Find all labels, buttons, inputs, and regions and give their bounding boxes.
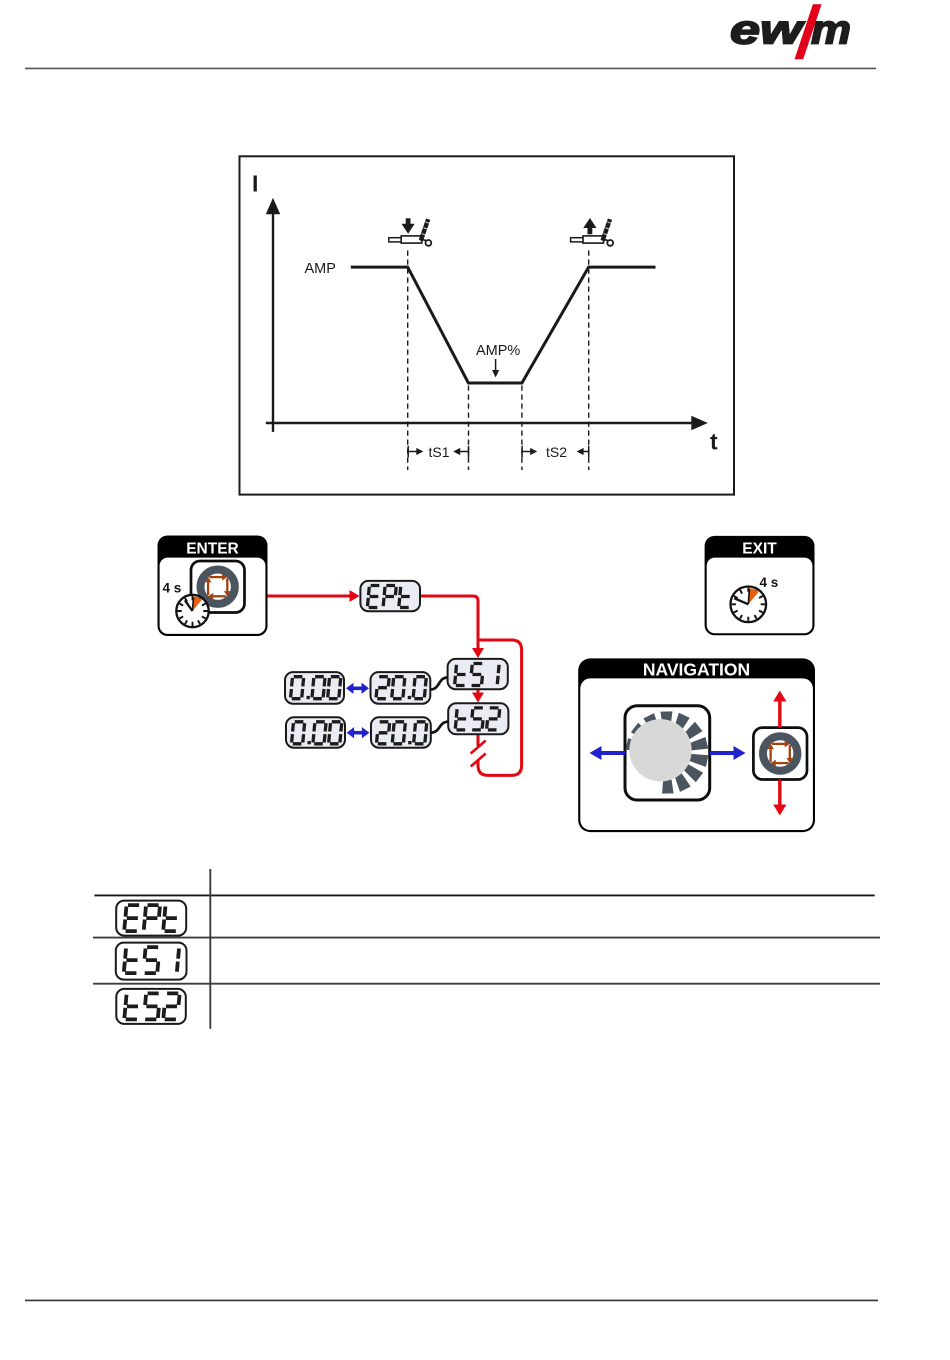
red arrow up xyxy=(773,691,786,728)
table EPt display xyxy=(116,901,186,936)
red loop: tS2 bottom, break, around right side back to top xyxy=(477,735,480,747)
ewm logo red slash xyxy=(795,4,822,59)
ENTER button box xyxy=(158,536,268,637)
rotary knob xyxy=(625,706,710,800)
torch icon with down arrow xyxy=(389,218,432,246)
dashed line 4 xyxy=(588,251,590,471)
NAVIGATION joystick icon xyxy=(753,728,807,780)
ENTER joystick icon xyxy=(191,561,245,613)
svg-text:4 s: 4 s xyxy=(760,575,779,590)
table tS2 display xyxy=(116,989,186,1024)
svg-text:4 s: 4 s xyxy=(163,581,182,596)
svg-text:AMP%: AMP% xyxy=(476,343,520,359)
x axis xyxy=(266,422,694,424)
table top rule xyxy=(94,894,874,896)
blue arrow left xyxy=(590,746,626,760)
NAVIGATION box xyxy=(578,658,815,832)
svg-text:m: m xyxy=(811,6,851,52)
chart frame xyxy=(240,156,735,494)
tS2 span arrows xyxy=(522,444,589,460)
table mid rule xyxy=(93,937,880,939)
dashed line 1 xyxy=(407,251,409,471)
tS1 span arrows xyxy=(408,444,468,460)
current curve xyxy=(351,267,656,383)
tS1 display xyxy=(448,659,508,689)
svg-text:NAVIGATION: NAVIGATION xyxy=(643,660,750,680)
connector 20.0 to tS2 xyxy=(431,722,448,733)
torch icon with up arrow xyxy=(571,218,614,246)
y axis xyxy=(272,214,274,432)
EXIT button box xyxy=(705,536,815,635)
red arrow tS1 to tS2 xyxy=(477,690,480,694)
svg-text:ENTER: ENTER xyxy=(186,541,239,558)
value 20.0 display row2 xyxy=(371,717,431,748)
red arrow ENTER to EPt xyxy=(268,595,351,598)
header rule xyxy=(25,67,876,69)
AMP% pointer arrow xyxy=(495,359,497,371)
value 0.00 display row2 xyxy=(286,717,345,748)
svg-text:AMP: AMP xyxy=(305,261,336,277)
value 20.0 display row1 xyxy=(371,672,431,704)
EXIT 4s clock xyxy=(731,587,767,623)
red arrow down xyxy=(773,780,786,816)
value 0.00 display row1 xyxy=(285,672,344,704)
dashed line 3 xyxy=(521,386,523,471)
EPt display xyxy=(360,581,420,611)
connector 20.0 to tS1 xyxy=(431,678,448,690)
footer rule xyxy=(25,1299,878,1301)
svg-text:tS1: tS1 xyxy=(429,444,450,460)
svg-text:tS2: tS2 xyxy=(546,444,567,460)
table tS1 display xyxy=(116,943,187,980)
svg-text:ew: ew xyxy=(730,6,805,52)
tS2 display xyxy=(448,703,508,734)
dashed line 2 xyxy=(468,386,470,471)
ENTER 4s clock xyxy=(176,595,208,627)
svg-text:t: t xyxy=(710,429,718,455)
red line EPt to loop junction with arrow into tS1 xyxy=(420,596,478,649)
table vertical rule xyxy=(209,869,211,1029)
svg-text:EXIT: EXIT xyxy=(742,541,777,558)
blue double arrow row2 xyxy=(347,727,370,738)
blue arrow right xyxy=(710,746,746,760)
svg-text:I: I xyxy=(252,171,258,197)
table low rule xyxy=(93,983,880,985)
blue double arrow row1 xyxy=(346,683,369,694)
